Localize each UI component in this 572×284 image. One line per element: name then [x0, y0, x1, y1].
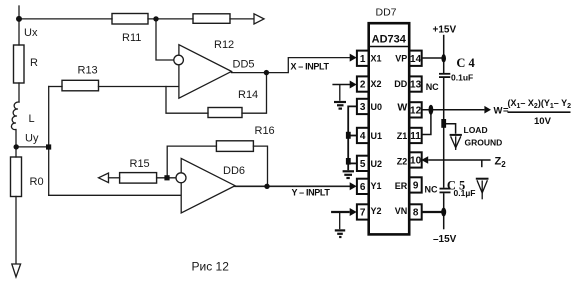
- svg-text:DD: DD: [394, 79, 407, 89]
- svg-text:ER: ER: [395, 181, 408, 191]
- svg-text:LOAD: LOAD: [464, 125, 488, 135]
- svg-text:2: 2: [360, 80, 366, 91]
- svg-text:13: 13: [410, 80, 422, 91]
- svg-text:12: 12: [410, 106, 422, 117]
- svg-text:VP: VP: [395, 54, 407, 64]
- svg-text:DD6: DD6: [223, 165, 245, 177]
- svg-text:R0: R0: [30, 176, 44, 188]
- svg-text:U2: U2: [371, 159, 383, 169]
- svg-text:5: 5: [360, 159, 366, 170]
- svg-text:Y1: Y1: [371, 181, 382, 191]
- svg-text:X – INPLT: X – INPLT: [291, 61, 330, 71]
- svg-text:Z2: Z2: [397, 157, 408, 167]
- svg-text:NC: NC: [426, 82, 439, 92]
- svg-text:X2: X2: [371, 79, 382, 89]
- svg-text:R12: R12: [214, 39, 234, 51]
- svg-text:R11: R11: [122, 32, 141, 44]
- svg-text:DD5: DD5: [233, 59, 255, 71]
- svg-text:GROUND: GROUND: [465, 137, 503, 147]
- svg-text:9: 9: [413, 181, 419, 192]
- svg-text:W: W: [494, 105, 503, 116]
- svg-text:Y2: Y2: [371, 206, 382, 216]
- svg-text:0.1uF: 0.1uF: [451, 73, 473, 83]
- svg-text:4: 4: [360, 131, 366, 142]
- svg-text:10: 10: [410, 156, 422, 167]
- svg-text:Uy: Uy: [25, 133, 39, 145]
- svg-text:L: L: [29, 113, 35, 125]
- svg-text:DD7: DD7: [376, 7, 397, 19]
- svg-text:10V: 10V: [534, 116, 552, 127]
- svg-text:R16: R16: [255, 125, 275, 137]
- svg-text:U1: U1: [371, 131, 383, 141]
- svg-text:–15V: –15V: [433, 234, 457, 245]
- svg-text:6: 6: [360, 182, 366, 193]
- svg-text:+15V: +15V: [433, 25, 457, 36]
- svg-text:C 4: C 4: [456, 56, 475, 70]
- svg-text:R13: R13: [78, 65, 98, 77]
- svg-text:11: 11: [410, 131, 421, 142]
- svg-text:R14: R14: [238, 89, 258, 101]
- svg-text:3: 3: [360, 102, 366, 113]
- svg-text:AD734: AD734: [372, 34, 407, 46]
- svg-text:0.1µF: 0.1µF: [454, 188, 476, 198]
- svg-text:Рис 12: Рис 12: [192, 260, 230, 274]
- svg-text:8: 8: [413, 208, 419, 219]
- svg-text:NC: NC: [425, 185, 438, 195]
- svg-text:7: 7: [360, 208, 366, 219]
- svg-text:Z1: Z1: [397, 131, 408, 141]
- svg-text:Y – INPLT: Y – INPLT: [292, 188, 331, 198]
- svg-text:R: R: [30, 57, 38, 69]
- svg-text:X1: X1: [371, 54, 382, 64]
- svg-text:R15: R15: [130, 158, 150, 170]
- svg-text:VN: VN: [395, 206, 408, 216]
- svg-text:14: 14: [410, 54, 422, 65]
- svg-text:Ux: Ux: [24, 27, 38, 39]
- svg-text:1: 1: [360, 54, 366, 65]
- svg-text:U0: U0: [371, 102, 383, 112]
- svg-text:W: W: [397, 102, 407, 114]
